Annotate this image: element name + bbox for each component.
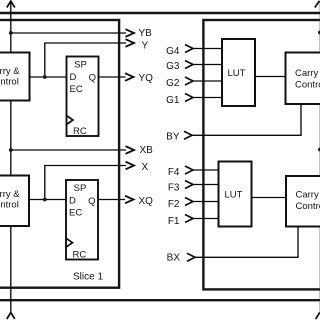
svg-text:F4: F4 (168, 167, 180, 178)
svg-text:Q: Q (89, 72, 96, 83)
LUT F (right slice, lower) (219, 162, 252, 227)
flip-flop FF2 (left, lower) (66, 180, 98, 260)
svg-text:F2: F2 (168, 199, 180, 210)
svg-text:D: D (69, 196, 76, 207)
svg-text:Control: Control (0, 76, 19, 87)
svg-text:XB: XB (140, 145, 154, 156)
arrowhead XQ (125, 196, 134, 204)
svg-text:LUT: LUT (225, 189, 243, 200)
carry &amp; control U4 (right, lower) (286, 176, 320, 227)
arrowhead YB (126, 29, 135, 37)
carry-in arrowhead (bottom right, cropped) (316, 313, 320, 320)
svg-text:XQ: XQ (139, 196, 154, 207)
LUT G (right slice, upper) (222, 39, 255, 106)
wire X (branch from D2) (45, 166, 126, 200)
slice 0 box (203, 20, 320, 289)
svg-text:G1: G1 (166, 95, 180, 106)
carry-out arrowhead (top right, cropped) (315, 1, 320, 8)
svg-text:Control: Control (296, 201, 320, 212)
node: YB tap junction (9, 31, 13, 35)
arrowhead XB (126, 146, 135, 154)
wire XB (11, 149, 126, 151)
svg-text:G3: G3 (166, 61, 180, 72)
carry chain wire (left slice, bottom segment) (10, 226, 12, 313)
svg-text:Carry: Carry (296, 189, 319, 200)
svg-text:Q: Q (88, 196, 95, 207)
svg-text:G4: G4 (166, 46, 180, 57)
carry-in arrowhead (bottom left) (7, 313, 15, 320)
svg-text:RC: RC (73, 250, 87, 261)
carry chain wire (right slice, cropped at edge) (319, 2, 320, 313)
carry chain wire (left slice, top segment) (10, 2, 12, 53)
svg-text:SP: SP (74, 183, 87, 194)
wire XQ (98, 199, 125, 201)
svg-text:LUT: LUT (228, 68, 246, 79)
svg-text:RC: RC (73, 126, 87, 137)
svg-text:Control: Control (295, 79, 320, 90)
node: X/D2 junction (43, 198, 47, 202)
node: Y/D1 junction (43, 75, 47, 79)
wire D input FF2 (29, 199, 66, 201)
wire LUT F to carry control U4 (252, 197, 287, 199)
FF1 clock triangle (67, 116, 74, 125)
svg-text:EC: EC (69, 208, 82, 219)
wire YB (11, 32, 126, 34)
wire D input FF1 (30, 76, 67, 78)
node: XB tap junction (9, 148, 13, 152)
FF2 clock triangle (66, 238, 73, 247)
svg-text:D: D (70, 72, 77, 83)
wire Y (branch from D1) (45, 43, 126, 77)
svg-text:F1: F1 (168, 216, 180, 227)
svg-text:Control: Control (0, 199, 19, 210)
wire BX to carry control U4 (195, 227, 298, 258)
arrowhead Y (126, 39, 135, 47)
svg-text:YQ: YQ (139, 73, 154, 84)
svg-text:Carry &: Carry & (0, 66, 20, 77)
wire YQ (99, 76, 126, 78)
svg-text:SP: SP (74, 59, 87, 70)
svg-text:Slice 1: Slice 1 (73, 272, 103, 283)
flip-flop FF1 (left, upper) (67, 57, 99, 137)
outer CLB top edge (0, 12, 320, 15)
node: right YB tap junction (cropped) (318, 31, 320, 35)
svg-text:G2: G2 (166, 78, 180, 89)
carry &amp; control U3 (right, upper) (286, 53, 320, 105)
arrowhead X (126, 162, 135, 170)
arrowhead YQ (125, 73, 134, 81)
svg-text:F3: F3 (168, 183, 180, 194)
svg-text:BX: BX (167, 252, 181, 263)
wire BY to carry control U3 (192, 104, 301, 135)
svg-text:EC: EC (70, 84, 83, 95)
node: right XB tap junction (cropped) (318, 148, 320, 152)
outer CLB bottom edge (0, 299, 320, 301)
svg-text:BY: BY (166, 132, 180, 143)
svg-text:X: X (142, 162, 149, 173)
carry-out arrowhead (top) (7, 1, 15, 8)
svg-text:Y: Y (142, 40, 149, 51)
carry chain wire (left slice, middle segment) (10, 101, 12, 176)
carry &amp; control U2 (left, lower) (0, 176, 29, 227)
svg-text:Carry: Carry (295, 68, 318, 79)
svg-text:YB: YB (139, 28, 153, 39)
carry &amp; control U1 (left, upper) (0, 53, 30, 101)
wire LUT G to carry control U3 (255, 76, 286, 78)
svg-text:Carry &: Carry & (0, 189, 20, 200)
slice 1 box (0, 20, 119, 288)
